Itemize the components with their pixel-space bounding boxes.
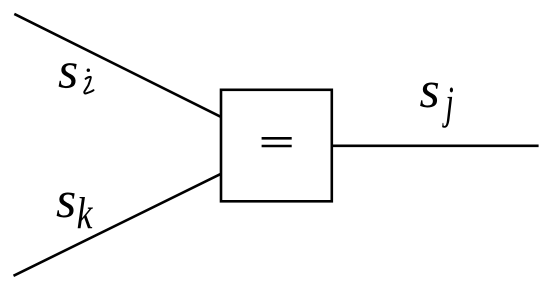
- label: s of s_i: [59, 63, 77, 88]
- label: s of s_k: [57, 193, 75, 218]
- label: subscript k of s_k: [78, 197, 93, 228]
- label: subscript i of s_i (stem and tail): [84, 77, 93, 94]
- node: equality (copy) tensor box: [221, 90, 332, 202]
- label: subscript i of s_i (dot): [87, 69, 90, 72]
- wire: bottom-left diagonal into box (index line s_k): [14, 174, 221, 276]
- label: s of s_j: [420, 83, 438, 108]
- label: = sign inside box, top bar: [262, 137, 292, 140]
- label: subscript j of s_j: [442, 88, 453, 128]
- wire: top-left diagonal into box (index line s_i): [14, 14, 220, 117]
- wire: right horizontal out of box (index line s_j): [331, 145, 539, 148]
- label: = sign inside box, bottom bar: [262, 145, 292, 148]
